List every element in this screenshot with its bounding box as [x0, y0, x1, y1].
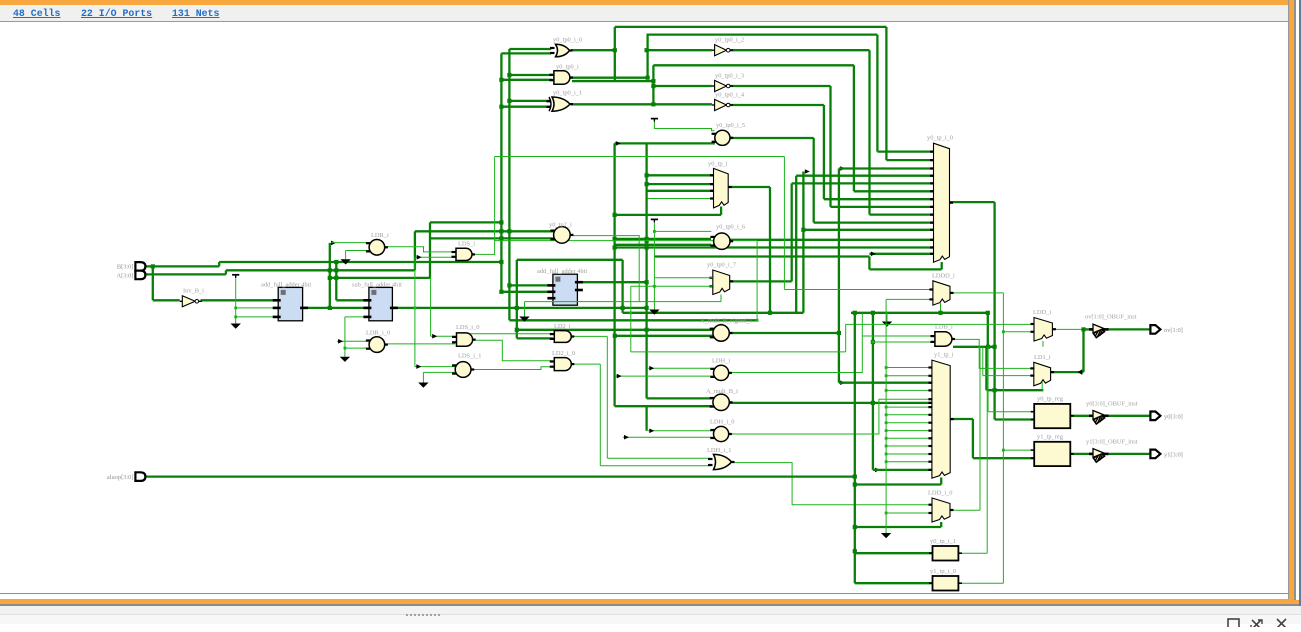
- wire OR out: [571, 49, 615, 51]
- svg-text:y1_tp_i: y1_tp_i: [934, 352, 954, 359]
- wire LD1_i out: [1051, 371, 1084, 373]
- junction: [853, 525, 857, 529]
- svg-text:y0_tp0_i_6: y0_tp0_i_6: [716, 224, 745, 231]
- junction: [328, 268, 332, 272]
- svg-text:add_full_adder 4bit: add_full_adder 4bit: [261, 282, 311, 289]
- wire LDR_i_0 out to LDS_i_0 in2: [385, 343, 455, 345]
- wire y1_tp_i pin: [886, 414, 932, 416]
- svg-text:LD1_i: LD1_i: [1034, 354, 1051, 361]
- wire: [572, 80, 653, 82]
- wire LDH_i out to LDB_i: [730, 336, 934, 373]
- wire A_mult_B in1: [647, 397, 713, 399]
- svg-text:LDS_i: LDS_i: [458, 240, 475, 247]
- wire LD1_i in2: [983, 375, 1034, 377]
- wire y0_tp_reg out: [1070, 415, 1091, 417]
- svg-text:y0_tp0_i: y0_tp0_i: [556, 64, 579, 71]
- wire arrow: [871, 252, 876, 257]
- input port A[3:0]: [135, 271, 145, 280]
- input port B[3:0]: [135, 262, 145, 271]
- circle gate y0_tp2_i: [550, 227, 573, 244]
- wire y1_tp_reg out: [1070, 453, 1091, 455]
- adder box add_full_adder_4bit_2: [547, 274, 583, 305]
- wire adder1 in3: [236, 316, 279, 318]
- wire middle rail a: [623, 312, 804, 314]
- wire to y0_tp_i_0 pin11: [803, 229, 933, 231]
- bottom panel 2: [0, 615, 1301, 624]
- junction: [645, 239, 649, 243]
- wire XOR in2: [501, 106, 550, 108]
- wire AND out: [570, 77, 648, 79]
- wire y0_tp_i in3: [647, 190, 714, 192]
- svg-text:LD2_i: LD2_i: [554, 323, 571, 330]
- wire LDS_i_0 out to LD2_i_0: [473, 340, 553, 361]
- wire: [872, 313, 874, 470]
- wire y0_tp0_i_5 out: [730, 137, 814, 139]
- wire AND in1: [509, 74, 552, 76]
- wire: [1082, 329, 1084, 372]
- wire y0_tp_i_0 out: [950, 201, 995, 203]
- canvas border line: [1288, 0, 1289, 600]
- wire: [838, 169, 840, 383]
- wire feeder: [508, 49, 510, 320]
- junction: [613, 237, 617, 241]
- wire y1_tp_i pin: [886, 422, 932, 424]
- wire y0_tp0_i_5 in1: [654, 122, 714, 131]
- wire: [940, 522, 942, 527]
- wire LDD_i_0 select: [855, 526, 941, 528]
- wire to ov OBUF: [1084, 328, 1093, 330]
- wire to y0_tp2_i in1: [415, 230, 554, 232]
- wire: [885, 27, 887, 160]
- right orange frame: [1289, 0, 1294, 601]
- wire: [621, 260, 623, 313]
- wire B net: [219, 261, 501, 263]
- wire: [813, 138, 815, 223]
- ground: [418, 378, 428, 388]
- junction: [645, 48, 649, 52]
- wire OR in1: [509, 48, 551, 50]
- box y1_tp_i_0: [929, 576, 962, 591]
- wire LDB_i out to LD1_i: [952, 339, 1034, 368]
- inverter y0_tp0_i_4: [712, 99, 733, 110]
- wire: [783, 157, 785, 290]
- link 48 Cells: [13, 8, 60, 19]
- wire: [524, 302, 526, 312]
- svg-text:LDH_i_1: LDH_i_1: [707, 447, 732, 454]
- junction: [507, 283, 511, 287]
- input port aluop[3:0]: [135, 472, 145, 481]
- mux LDD_i: [1031, 318, 1056, 342]
- wire: [646, 35, 648, 78]
- ground: [231, 319, 241, 329]
- junction: [1002, 330, 1005, 333]
- wire LDDD_i select: [940, 303, 942, 313]
- circle gate LDH_i: [710, 365, 732, 380]
- canvas right border: [1288, 0, 1301, 600]
- output buffer y1 OBUF: [1089, 449, 1109, 463]
- wire LDS_i_1 out: [471, 367, 553, 370]
- junction: [414, 307, 417, 310]
- bottom top line: [0, 599, 1289, 600]
- svg-text:y1[3:0]: y1[3:0]: [1164, 451, 1183, 458]
- wire to y0_tp_i_0 pin4: [796, 175, 933, 177]
- right gray frame: [1294, 0, 1296, 601]
- junction: [885, 374, 888, 377]
- wire: [652, 65, 654, 104]
- wire LDH_i in2: [616, 375, 715, 377]
- wire: [886, 313, 888, 317]
- wire: [653, 223, 655, 305]
- bottom gray frame: [0, 604, 1299, 606]
- wire LDD_i_0 in2: [886, 512, 932, 514]
- wire LDS_i out: [472, 241, 757, 255]
- wire: [345, 251, 347, 255]
- svg-text:LDS_i_1: LDS_i_1: [458, 353, 481, 360]
- junction: [328, 306, 332, 310]
- wire thin loop left: [494, 157, 496, 241]
- circle gate A_mult_B_i: [710, 394, 733, 410]
- junction: [645, 328, 649, 332]
- svg-text:y1[3:0]_OBUF_inst: y1[3:0]_OBUF_inst: [1086, 439, 1138, 446]
- junction: [499, 260, 503, 264]
- wire y1_tp_i pin: [886, 437, 932, 439]
- junction: [151, 264, 155, 268]
- wire A_mult_B out: [729, 402, 933, 404]
- wire: [987, 347, 989, 412]
- wire ov OBUF out: [1107, 328, 1150, 330]
- wire y0_tp_i select: [615, 214, 722, 216]
- junction: [1002, 449, 1005, 452]
- wire middle rail b: [851, 312, 988, 314]
- junction: [1081, 327, 1085, 331]
- junction: [885, 389, 888, 392]
- wire to y0_tp_i_0 pin7: [824, 198, 934, 200]
- circle gate y0_tp0_i_6: [710, 233, 733, 249]
- wire: [631, 351, 846, 353]
- ground: [519, 312, 529, 322]
- junction: [645, 173, 649, 177]
- wire: [335, 262, 337, 300]
- wire y1_tp_i pin: [886, 375, 932, 377]
- wire arrow: [840, 380, 845, 385]
- icon close: [1277, 619, 1286, 628]
- svg-text:y0_tp_i_0: y0_tp_i_0: [927, 135, 953, 142]
- svg-text:y0_tp_i: y0_tp_i: [708, 161, 728, 168]
- junction: [645, 245, 649, 249]
- junction: [645, 306, 649, 310]
- wire OR in2: [501, 52, 551, 54]
- wire: [982, 347, 984, 376]
- junction: [837, 331, 841, 335]
- wire arrow: [416, 364, 421, 369]
- wire to y0_tp_i_0 pin14: [869, 253, 933, 255]
- wire LDDD_i out: [950, 292, 1003, 294]
- svg-text:B[3:0]: B[3:0]: [117, 264, 134, 271]
- wire: [430, 278, 432, 336]
- junction: [885, 366, 888, 369]
- wire: [756, 241, 758, 321]
- wire y0_tp0_i_6 in2: [615, 244, 711, 246]
- wire y1_tp_i pin: [886, 453, 932, 455]
- wire: [414, 231, 416, 270]
- wire to Inv_B_i: [152, 266, 154, 300]
- wire y0_tp0_i_7 out: [730, 280, 792, 282]
- wire A_mult_B_signed in2: [615, 335, 715, 337]
- junction: [885, 429, 888, 432]
- wire: [868, 257, 870, 270]
- wire LDD_i in2: [1003, 331, 1034, 333]
- wire LDR_i_0 in1: [337, 340, 370, 342]
- wire aluop rail: [146, 475, 855, 477]
- junction: [499, 78, 503, 82]
- wire y0_tp_reg in2: [995, 418, 1035, 420]
- wire: [430, 221, 501, 223]
- wire: [1041, 382, 1043, 391]
- junction: [344, 347, 347, 350]
- wire y1_tp_i pin: [886, 461, 932, 463]
- wire inv2 out: [730, 49, 869, 51]
- junction: [653, 285, 656, 288]
- junction: [651, 102, 655, 106]
- wire LDS_i_0 in1: [431, 335, 455, 337]
- wire y1_tp_i select: [855, 483, 941, 485]
- wire arrow: [1078, 369, 1083, 375]
- junction: [499, 220, 503, 224]
- wire: [517, 259, 623, 261]
- svg-text:LDH_i: LDH_i: [712, 358, 730, 365]
- junction: [651, 84, 655, 88]
- junction: [613, 334, 617, 338]
- wire: [218, 262, 220, 266]
- wire A port: [146, 273, 226, 275]
- wire arrow: [840, 166, 845, 171]
- junction: [645, 280, 649, 284]
- svg-text:y1_tp_i_0: y1_tp_i_0: [930, 568, 956, 575]
- junction: [234, 316, 237, 319]
- wire: [235, 278, 237, 318]
- wire to y0_tp_i_0 pin13: [615, 246, 934, 248]
- svg-text:LDR_i_0: LDR_i_0: [366, 330, 390, 337]
- wire: [986, 390, 988, 553]
- wire arrow: [616, 141, 621, 146]
- wire LD2_i_0 out: [571, 363, 600, 365]
- junction: [499, 105, 503, 109]
- wire LDR_i out to LDS_i in1: [385, 247, 455, 252]
- wire LDDD_i in2: [886, 298, 933, 300]
- AND gate LDS_i: [452, 248, 476, 260]
- constant T: [232, 275, 239, 278]
- output buffer ov OBUF: [1089, 324, 1109, 338]
- wire inv4 out: [730, 104, 824, 106]
- junction: [938, 311, 942, 315]
- junction: [629, 311, 632, 314]
- junction: [328, 276, 332, 280]
- wire: [720, 295, 722, 302]
- junction: [871, 401, 875, 405]
- wire arrow: [805, 169, 810, 174]
- inverter y0_tp0_i_3: [712, 80, 733, 91]
- wire: [979, 347, 981, 510]
- junction: [885, 413, 888, 416]
- svg-text:A_mult_B_signed_i: A_mult_B_signed_i: [700, 318, 752, 325]
- svg-text:add_full_adder 4bit: add_full_adder 4bit: [537, 268, 587, 275]
- junction: [853, 482, 857, 486]
- wire y1_tp_i pin: [886, 430, 932, 432]
- svg-text:LDB_i: LDB_i: [935, 324, 953, 331]
- AND gate LDS_i_0: [452, 333, 476, 346]
- AND gate LD2_i_0: [550, 358, 575, 371]
- wire: [987, 313, 989, 347]
- wire A_mult_B_signed out: [728, 332, 839, 334]
- wire AND in2: [501, 79, 552, 81]
- wire y1_tp_i_0 out: [958, 582, 1003, 584]
- wire: [823, 105, 825, 199]
- wire arrow: [338, 339, 343, 344]
- wire LDH_i_1 in1: [607, 457, 710, 459]
- junction: [872, 341, 875, 344]
- svg-text:y0_tp_reg: y0_tp_reg: [1037, 396, 1064, 403]
- wire to y0_tp_i_0 pin6: [854, 190, 934, 192]
- svg-text:LDD_i: LDD_i: [1033, 309, 1051, 316]
- junction: [853, 549, 857, 553]
- wire to y0_tp_i_0 pin1: [877, 150, 933, 152]
- wire LD2_i in1: [470, 333, 553, 335]
- OR gate y0_tp0_i_0: [550, 44, 573, 57]
- wire y1_tp_i out: [951, 418, 973, 420]
- ground: [882, 317, 892, 327]
- wire: [720, 207, 722, 215]
- wire: [599, 364, 601, 466]
- wire arrow: [417, 255, 422, 260]
- wire: [941, 262, 943, 269]
- junction: [507, 229, 511, 233]
- wire: [853, 65, 855, 191]
- wire A net: [226, 269, 415, 271]
- output port ov[1:0]: [1150, 325, 1160, 334]
- circle gate LDR_i: [366, 240, 388, 256]
- wire: [429, 222, 431, 278]
- circle gate A_mult_B_signed_i: [710, 325, 733, 341]
- ground: [340, 352, 350, 362]
- wire y0_tp_i in4: [647, 198, 714, 200]
- wire y0_tp_i_1 out: [958, 552, 987, 554]
- svg-text:ov[1:0]_OBUF_inst: ov[1:0]_OBUF_inst: [1085, 314, 1137, 321]
- junction: [613, 245, 617, 249]
- icon rectangle: [1228, 619, 1239, 629]
- junction: [613, 213, 617, 217]
- junction: [885, 437, 888, 440]
- wire y1_tp_i pin: [886, 406, 932, 408]
- wire LDR_i in2: [346, 250, 369, 252]
- wire: [795, 176, 797, 313]
- wire: [861, 314, 863, 337]
- svg-text:y0[3:0]: y0[3:0]: [1164, 413, 1183, 420]
- wire y1_tp_i pin: [886, 367, 932, 369]
- svg-text:aluop[3:0]: aluop[3:0]: [107, 474, 134, 481]
- junction: [993, 345, 997, 349]
- wire LD1_i select: [986, 389, 1043, 391]
- wire LD2_i in2: [517, 337, 553, 339]
- wire LDH_i_1 in2: [600, 465, 710, 467]
- svg-text:Inv_B_i: Inv_B_i: [183, 288, 204, 295]
- wire LDR_i in1: [331, 242, 369, 244]
- wire to y0_tp0_i_6 in1: [615, 238, 711, 240]
- wire A_mult_B_signed in1: [517, 329, 715, 331]
- wire y0_tp_i_0 select: [869, 268, 941, 270]
- circle gate LDH_i_0: [710, 426, 732, 441]
- junction: [885, 421, 888, 424]
- wire adder1 in2: [236, 307, 279, 309]
- wire middle rail 2: [509, 319, 757, 321]
- wire LDD_i select: [1042, 341, 1044, 347]
- wire LDH_i_0 in2: [623, 436, 715, 438]
- junction: [645, 182, 649, 186]
- junction: [885, 406, 888, 409]
- mux LD1_i: [1030, 362, 1054, 386]
- wire to sub adder in1: [336, 299, 369, 301]
- wire: [422, 372, 424, 377]
- wire y0_tp_i in1: [647, 174, 714, 176]
- XOR gate y0_tp0_i_1: [547, 97, 574, 111]
- wire to y0_tp_i_0 pin2: [886, 159, 933, 161]
- wire: [791, 183, 793, 281]
- wire arrow: [331, 241, 336, 246]
- junction: [334, 260, 338, 264]
- wire y0_tp_reg in1: [988, 411, 1034, 413]
- output buffer y0 OBUF: [1089, 411, 1109, 425]
- circle gate y0_tp0_i_5: [712, 130, 734, 145]
- wire LDS_i_1 in2: [423, 371, 455, 373]
- ground: [649, 305, 659, 315]
- wire feeder stub: [645, 405, 647, 431]
- wire feeder: [500, 53, 502, 291]
- wire net y0_tp0_i top run: [647, 33, 878, 35]
- svg-text:LD2_i_0: LD2_i_0: [552, 350, 575, 357]
- junction: [507, 99, 511, 103]
- junction: [507, 73, 511, 77]
- svg-text:LDDD_i: LDDD_i: [932, 273, 955, 280]
- output port y0[3:0]: [1150, 412, 1160, 421]
- wire thin bundle: [885, 299, 887, 528]
- inverter y0_tp0_i_2: [712, 45, 733, 56]
- wire adder out to sub in2: [303, 307, 369, 309]
- circle gate LDS_i_1: [452, 362, 474, 378]
- adder box sub_full_adder_4bit: [363, 287, 398, 320]
- wire: [802, 172, 804, 313]
- wire arrow: [649, 429, 654, 434]
- junction: [853, 311, 857, 315]
- wire Inv_B_i out: [201, 299, 279, 301]
- bottom orange frame: [0, 600, 1299, 604]
- wire y1_tp_reg in2: [973, 457, 1034, 459]
- icon expand arrows: [1251, 620, 1262, 629]
- wire LDS_i in2: [416, 256, 455, 258]
- constant T: [651, 219, 658, 222]
- wire to LDD_i in1: [846, 324, 1034, 352]
- wire: [330, 277, 430, 279]
- junction: [885, 453, 888, 456]
- wire y1 OBUF out: [1107, 453, 1151, 455]
- wire LDDD_i in1: [784, 289, 933, 291]
- svg-text:A_mult_B_i: A_mult_B_i: [706, 388, 738, 395]
- wire LDD_i out: [1052, 328, 1083, 330]
- wire LDD_i_0 out: [950, 509, 980, 511]
- wire: [868, 50, 870, 214]
- wire long feeder: [645, 143, 647, 398]
- output port y1[3:0]: [1150, 450, 1160, 459]
- junction: [853, 475, 857, 479]
- junction: [334, 276, 338, 280]
